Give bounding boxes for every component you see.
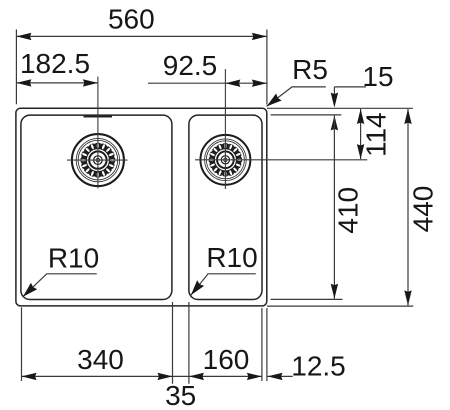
right drain centerline vertical xyxy=(224,69,226,189)
svg-text:R10: R10 xyxy=(48,242,99,273)
svg-text:92.5: 92.5 xyxy=(163,50,218,81)
arrow 114 bottom xyxy=(357,144,364,159)
arrow 114 top xyxy=(357,109,364,124)
arrow 182.5 right xyxy=(83,79,98,86)
arrow 15 down xyxy=(331,93,338,108)
extension line left edge top xyxy=(15,30,17,105)
svg-text:114: 114 xyxy=(360,112,391,157)
arrow 15 up / 410 top xyxy=(331,115,338,130)
svg-text:35: 35 xyxy=(165,380,196,410)
R10 right leader line xyxy=(191,274,256,295)
arrow 92.5 left xyxy=(225,80,240,87)
arrow 92.5 right xyxy=(252,80,267,87)
R5 leader line xyxy=(267,87,326,107)
arrow 160 left xyxy=(189,373,204,380)
svg-text:182.5: 182.5 xyxy=(20,48,90,79)
dimension 440 line vertical xyxy=(407,109,409,305)
dimension 114 line vertical xyxy=(360,109,362,159)
arrow 440 bottom xyxy=(404,290,411,305)
svg-text:R5: R5 xyxy=(292,54,328,85)
left drain centerline vertical xyxy=(97,77,99,189)
extension line bowl1 right bottom xyxy=(172,302,174,384)
arrow 12.5 pointing left xyxy=(268,373,283,380)
left bowl rounded rect xyxy=(21,115,172,299)
outer bottom edge extension to right xyxy=(267,305,413,307)
svg-text:15: 15 xyxy=(362,61,393,92)
extension line right edge top xyxy=(266,30,268,105)
left drain centerline horizontal xyxy=(67,159,128,161)
dimension 410 line vertical xyxy=(333,115,335,298)
dimension 92.5 line with tail xyxy=(148,82,267,84)
svg-text:410: 410 xyxy=(333,187,364,234)
top edge extension to right xyxy=(267,107,413,109)
svg-text:12.5: 12.5 xyxy=(291,350,346,381)
dimension 560 line xyxy=(16,35,267,37)
right drain centerline horizontal extended to 114 dimension xyxy=(195,159,367,161)
arrow 160 right xyxy=(247,373,262,380)
svg-text:440: 440 xyxy=(408,186,439,233)
extension line outer right bottom xyxy=(266,308,268,381)
right drain strainer xyxy=(200,135,250,185)
svg-text:R10: R10 xyxy=(206,242,257,273)
svg-text:160: 160 xyxy=(203,344,250,375)
arrow 560 right xyxy=(252,33,267,40)
R10 left leader arrowhead xyxy=(20,283,37,300)
arrow 340 left xyxy=(22,373,37,380)
dimension 12.5 tail xyxy=(267,375,293,377)
arrow 182.5 left xyxy=(16,79,31,86)
dimension 15 upper arrow segment xyxy=(333,87,335,94)
svg-text:340: 340 xyxy=(77,344,124,375)
dimension 182.5 line xyxy=(16,82,98,84)
R10 right leader arrowhead xyxy=(187,280,204,298)
dimension 340/160 baseline xyxy=(22,375,262,377)
arrow 410 bottom xyxy=(331,284,338,299)
sink outer edge rounded rect xyxy=(16,108,267,306)
left drain strainer xyxy=(72,134,124,186)
extension line bowl1 left bottom xyxy=(21,307,23,381)
R10 left leader line xyxy=(23,274,97,297)
bowl top edge extension to right xyxy=(271,114,342,116)
arrow 560 left xyxy=(16,33,31,40)
R5 leader arrowhead xyxy=(264,93,282,110)
svg-text:560: 560 xyxy=(108,3,155,34)
arrow 340 right xyxy=(158,373,173,380)
right bowl rounded rect xyxy=(189,115,262,299)
thick ledge mark on left bowl top edge xyxy=(84,115,113,118)
15 leader horizontal line xyxy=(334,86,366,88)
extension line bowl2 right bottom xyxy=(261,308,263,381)
extension line bowl2 left bottom xyxy=(188,302,190,384)
arrow 440 top xyxy=(404,109,411,124)
bowl bottom edge extension to right xyxy=(271,298,343,300)
